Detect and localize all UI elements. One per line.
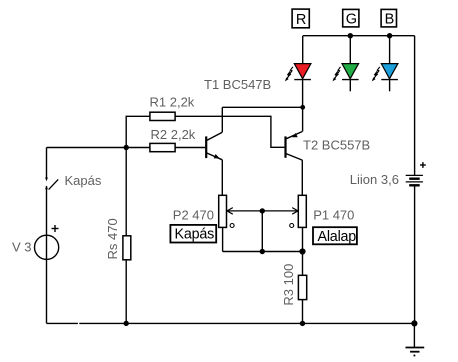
- wire R1 to T2 base: [175, 116, 284, 147]
- resistor R1: [150, 95, 195, 121]
- transistor T1: [204, 77, 271, 160]
- transistor T2: [286, 132, 371, 161]
- svg-text:P2 470: P2 470: [173, 208, 214, 223]
- svg-text:Liion 3,6: Liion 3,6: [350, 172, 399, 187]
- svg-text:V 3: V 3: [12, 240, 32, 255]
- switch Kapas: [45, 173, 102, 189]
- svg-text:Kapás: Kapás: [65, 173, 102, 188]
- LED R: [285, 36, 311, 82]
- wire R2 to T1 base: [175, 147, 205, 149]
- node dot bus-G: [348, 33, 353, 38]
- node R label box: [292, 9, 309, 28]
- ground: [406, 348, 425, 356]
- wire pot bottom horizontal: [223, 251, 303, 253]
- svg-text:R3 100: R3 100: [281, 264, 296, 306]
- svg-text:R1 2,2k: R1 2,2k: [150, 95, 195, 110]
- wire R3 bottom: [302, 300, 304, 324]
- node dot rail-right: [411, 320, 417, 326]
- source V3: [12, 225, 59, 259]
- wire left vertical upper (to switch): [46, 148, 48, 179]
- wire node A horizontal: [47, 147, 150, 149]
- wire T1 emitter to P2: [221, 160, 223, 196]
- node dot collector net: [300, 105, 305, 110]
- wire T1 collector vertical: [221, 107, 223, 132]
- wire battery to bottom rail: [414, 186, 416, 323]
- wire R1 left branch: [126, 116, 150, 147]
- svg-text:R2 2,2k: R2 2,2k: [151, 127, 196, 142]
- svg-text:B: B: [385, 12, 395, 28]
- potentiometer P2: [173, 195, 234, 227]
- node dot P1 bottom: [299, 248, 305, 254]
- potentiometer P1: [290, 195, 355, 227]
- battery Liion: [350, 162, 426, 187]
- wire left vertical lower (switch to rail, through V source): [46, 186, 48, 323]
- node dot wiper bottom: [260, 249, 265, 254]
- wire right vertical to battery: [414, 36, 416, 176]
- svg-text:Kapás: Kapás: [175, 227, 215, 243]
- node G label box: [343, 9, 359, 27]
- node dot wiper: [260, 208, 265, 213]
- box Alalap (P1 label): [313, 227, 357, 245]
- node dot bus-B: [387, 33, 392, 38]
- wire P2 bottom: [222, 227, 224, 251]
- resistor R2: [150, 127, 196, 152]
- svg-text:G: G: [346, 12, 357, 28]
- svg-text:P1 470: P1 470: [313, 208, 354, 223]
- wire Rs top: [125, 148, 127, 236]
- wire Rs bottom: [125, 260, 127, 324]
- node dot A: [124, 145, 129, 150]
- wire T2 collector to P1: [301, 160, 303, 195]
- node dot rail-R3: [300, 321, 305, 326]
- wire collector node horizontal: [222, 106, 302, 108]
- wire top bus: [303, 35, 415, 37]
- wiper double arrow: [227, 208, 298, 215]
- LED G: [333, 36, 359, 92]
- LED B: [372, 36, 398, 92]
- svg-text:Alalap: Alalap: [318, 229, 357, 245]
- svg-text:Rs 470: Rs 470: [105, 218, 120, 259]
- wire R3 top: [302, 252, 304, 276]
- wire bottom rail: [47, 322, 78, 324]
- wire ground stub: [413, 323, 415, 347]
- node B label box: [381, 9, 396, 27]
- box Kapas (P2 label): [170, 225, 216, 243]
- svg-text:R: R: [296, 12, 306, 28]
- wire wiper center down: [261, 211, 263, 252]
- node dot rail-Rs: [124, 321, 129, 326]
- resistor Rs: [105, 218, 131, 260]
- svg-text:T2 BC557B: T2 BC557B: [303, 138, 370, 153]
- wire P1 bottom: [302, 227, 304, 251]
- svg-text:T1 BC547B: T1 BC547B: [204, 77, 271, 92]
- resistor R3: [281, 264, 307, 306]
- wire red LED cathode to T2 emitter: [302, 80, 304, 132]
